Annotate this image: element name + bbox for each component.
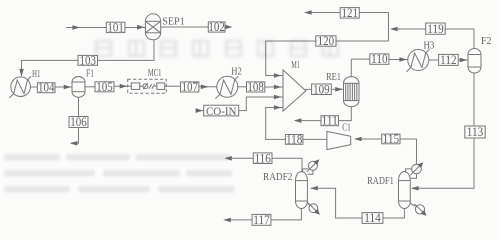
wire CO-IN inlet arrow <box>196 110 204 112</box>
wire RADF1 condenser to 115 <box>400 139 417 164</box>
wire SEP1 to 102 <box>161 26 209 28</box>
wire 105 to MC1 <box>114 85 131 87</box>
svg-text:104: 104 <box>38 81 55 95</box>
svg-text:H2: H2 <box>231 67 242 78</box>
RADF2 reboiler <box>307 203 320 215</box>
svg-text:116: 116 <box>254 151 271 165</box>
stream box 120 <box>316 34 336 48</box>
stream box 112 <box>439 53 459 67</box>
wire MC1 to 107 <box>165 85 181 87</box>
wire junction vertical F2 recycle split <box>388 13 390 42</box>
separator SEP1 <box>145 14 160 40</box>
wire CO-IN to M1 <box>239 97 283 111</box>
svg-text:115: 115 <box>383 132 400 146</box>
wire H1 to 104 <box>31 86 38 88</box>
svg-text:112: 112 <box>440 53 457 67</box>
stream box 104 <box>37 81 55 95</box>
svg-text:F1: F1 <box>86 68 94 79</box>
svg-text:108: 108 <box>247 80 264 94</box>
flash drum F1 <box>72 77 85 98</box>
svg-text:101: 101 <box>107 20 124 34</box>
watermark rows bottom-left <box>4 154 235 193</box>
svg-text:111: 111 <box>321 114 338 128</box>
reactor RE1 <box>344 77 360 107</box>
svg-text:102: 102 <box>208 20 225 34</box>
wire F2 bottom to 113 to RADF1 <box>412 73 474 188</box>
RADF1 condenser <box>406 162 424 178</box>
svg-text:120: 120 <box>318 34 335 48</box>
column RADF2 <box>296 172 308 209</box>
stream box 107 <box>181 80 199 94</box>
wire 101 to SEP1 <box>125 27 145 29</box>
wire RADF2 bottom to 117 outlet <box>271 208 301 220</box>
stream box 113 <box>465 125 485 139</box>
svg-text:F2: F2 <box>481 36 492 47</box>
svg-text:103: 103 <box>79 53 96 67</box>
wire RE1 top to 110 <box>351 59 370 76</box>
wire 120 recycle to M1 <box>336 40 389 42</box>
svg-text:106: 106 <box>70 115 87 129</box>
wire 102 outlet arrow <box>225 26 229 28</box>
stream box 114 <box>362 211 383 225</box>
wire H2 to 108 <box>238 86 247 88</box>
svg-text:119: 119 <box>427 22 444 36</box>
wire 104 to F1 <box>55 86 72 88</box>
CO-IN feed label box <box>204 105 239 116</box>
RADF2 condenser <box>303 159 320 174</box>
column RADF1 <box>399 172 411 209</box>
svg-text:M1: M1 <box>291 60 300 71</box>
wire F1 bottom to 106 outlet <box>71 97 79 143</box>
stream box 103 <box>78 53 98 67</box>
RADF1 reboiler <box>410 203 426 216</box>
flash drum F2 <box>468 49 481 73</box>
multistage compressor MC1 <box>128 79 167 93</box>
svg-text:113: 113 <box>467 125 484 139</box>
wire feed inlet to 101 <box>66 27 106 29</box>
svg-text:RE1: RE1 <box>326 72 341 83</box>
wire RE1 bottom to 111 outlet <box>339 107 352 121</box>
svg-text:109: 109 <box>313 82 330 96</box>
wire 109 to RE1 <box>331 88 343 90</box>
watermark row top <box>96 41 338 56</box>
svg-text:121: 121 <box>342 6 359 20</box>
svg-text:SEP1: SEP1 <box>162 16 184 27</box>
svg-text:107: 107 <box>181 80 198 94</box>
wire 115 to C1 <box>355 138 382 140</box>
svg-text:RADF2: RADF2 <box>263 172 292 183</box>
svg-text:MC1: MC1 <box>148 68 162 79</box>
stream box 108 <box>247 80 265 94</box>
wire 112 to F2 <box>458 59 468 61</box>
svg-text:117: 117 <box>253 213 270 227</box>
heat exchanger H1 <box>9 76 31 98</box>
wire F2 top to 119 <box>445 29 474 49</box>
mixer M1 <box>283 70 306 111</box>
svg-text:118: 118 <box>286 132 303 146</box>
wire C1 to 118 <box>303 138 327 140</box>
svg-text:105: 105 <box>96 80 113 94</box>
stream box 121 <box>340 6 359 20</box>
svg-text:114: 114 <box>364 211 381 225</box>
wire 121 purge line <box>359 12 388 14</box>
heat exchanger H3 <box>406 49 429 72</box>
stream box 117 <box>252 213 271 227</box>
svg-text:RADF1: RADF1 <box>367 176 394 187</box>
stream box 116 <box>253 151 272 165</box>
wire 108 to M1 <box>265 86 283 88</box>
wire 110 to H3 <box>389 59 408 61</box>
stream box 119 <box>426 22 446 36</box>
svg-text:H1: H1 <box>32 69 41 80</box>
wire M1 to 109 <box>305 88 312 90</box>
stream box 109 <box>312 82 332 96</box>
svg-text:H3: H3 <box>424 41 435 52</box>
wire RADF2 top to 116 outlet <box>272 158 302 172</box>
compressor C1 <box>327 131 351 149</box>
stream box 102 <box>208 20 225 34</box>
stream box 106 <box>69 115 88 129</box>
stream box 105 <box>95 80 114 94</box>
stream box 118 <box>285 132 303 146</box>
wire F1 to 105 <box>85 86 95 88</box>
wire SEP1 bottom to 103 to H1 <box>98 40 155 61</box>
heat exchanger H2 <box>215 76 238 99</box>
wire RADF1 bottom to 114 to RADF2 <box>383 208 405 218</box>
stream box 110 <box>370 52 389 66</box>
stream box 115 <box>382 132 400 146</box>
wire 118 to M1 <box>266 108 286 140</box>
wire H3 to 112 <box>429 59 439 61</box>
svg-text:CO-IN: CO-IN <box>206 104 237 118</box>
stream box 111 <box>321 114 339 128</box>
wire 107 to H2 <box>199 86 217 88</box>
stream box 101 <box>106 20 125 34</box>
svg-text:C1: C1 <box>342 123 351 134</box>
svg-text:110: 110 <box>371 52 388 66</box>
